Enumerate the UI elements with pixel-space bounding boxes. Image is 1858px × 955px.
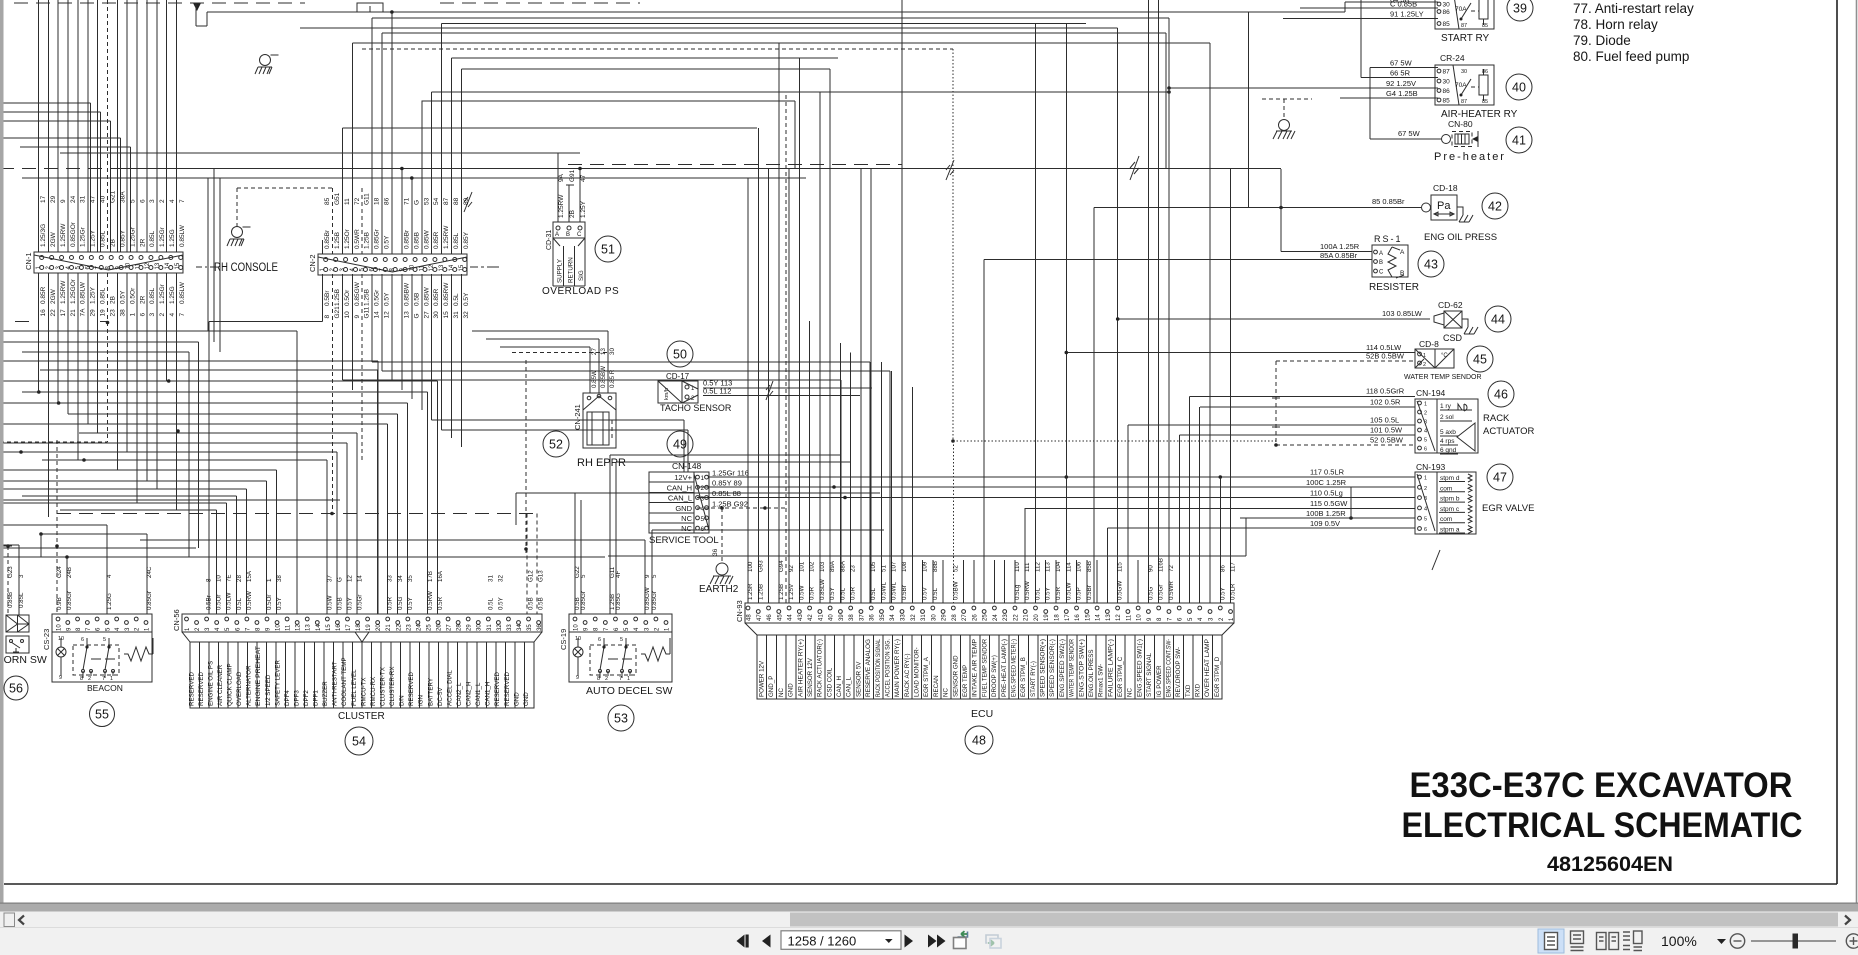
svg-text:1.25/3G: 1.25/3G — [40, 224, 47, 247]
wire — [1248, 12, 1250, 208]
wire — [208, 322, 210, 615]
svg-text:RS-1: RS-1 — [1374, 234, 1403, 244]
svg-text:55: 55 — [95, 708, 109, 722]
connector CN-148 SERVICE TOOL — [649, 461, 749, 546]
svg-text:23: 23 — [850, 565, 857, 572]
wire — [140, 539, 645, 541]
svg-text:0.5Y: 0.5Y — [384, 235, 391, 249]
relay CR-24 AIR-HEATER RY — [1435, 53, 1518, 120]
wire — [0, 544, 19, 546]
svg-text:103 0.85LW: 103 0.85LW — [1382, 309, 1423, 318]
svg-text:0.5Br: 0.5Br — [1086, 585, 1093, 600]
wire — [651, 530, 653, 614]
svg-text:56: 56 — [9, 682, 23, 696]
svg-text:5: 5 — [651, 574, 658, 578]
svg-text:0.5Y: 0.5Y — [1045, 587, 1052, 600]
svg-text:B: B — [1400, 270, 1404, 277]
wire — [107, 0, 109, 252]
svg-text:32: 32 — [497, 624, 503, 631]
toolbar background — [0, 927, 1858, 955]
svg-text:0.5Br: 0.5Br — [901, 585, 908, 600]
svg-text:CN-1: CN-1 — [24, 252, 33, 270]
svg-text:0.85RW: 0.85RW — [443, 282, 450, 306]
svg-text:stpm b: stpm b — [1440, 496, 1460, 503]
svg-text:DPF1: DPF1 — [313, 690, 320, 706]
svg-text:54: 54 — [352, 735, 366, 749]
svg-text:6: 6 — [701, 526, 705, 533]
svg-text:0.85W: 0.85W — [591, 370, 598, 388]
svg-text:0.85B: 0.85B — [7, 592, 14, 608]
svg-text:23: 23 — [110, 309, 117, 317]
svg-text:24C: 24C — [146, 566, 153, 578]
svg-text:13: 13 — [1106, 614, 1112, 621]
pressure sender CD-18 ENG OIL PRESS — [1372, 183, 1497, 243]
wire — [346, 443, 348, 614]
wire — [1118, 318, 1430, 320]
svg-text:START SIGNAL: START SIGNAL — [1146, 652, 1153, 697]
svg-text:19: 19 — [100, 309, 107, 317]
wire — [0, 545, 12, 547]
svg-text:53: 53 — [423, 197, 430, 205]
svg-text:4 rps: 4 rps — [1440, 438, 1455, 445]
svg-text:16: 16 — [336, 624, 342, 631]
svg-text:CAN_L: CAN_L — [668, 494, 692, 503]
zoom in button — [1846, 934, 1858, 948]
svg-text:47: 47 — [580, 174, 587, 182]
svg-text:1: 1 — [627, 676, 630, 682]
svg-text:0.5B: 0.5B — [538, 597, 545, 610]
svg-text:CAN_H: CAN_H — [667, 483, 692, 492]
svg-text:34: 34 — [517, 624, 523, 631]
button previous page — [762, 935, 771, 948]
svg-text:DROOP SW(+): DROOP SW(+) — [991, 655, 998, 697]
ground (RH console) — [227, 227, 251, 247]
svg-text:86: 86 — [1482, 69, 1488, 75]
svg-text:CD-31: CD-31 — [546, 230, 553, 250]
junction — [400, 167, 404, 171]
svg-text:22: 22 — [396, 624, 402, 631]
svg-text:100C 1.25R: 100C 1.25R — [1306, 478, 1347, 487]
callout 56 — [4, 676, 28, 700]
svg-text:71: 71 — [403, 197, 410, 205]
wire — [22, 495, 237, 497]
wire — [206, 12, 208, 26]
svg-text:102 0.5R: 102 0.5R — [1370, 398, 1401, 407]
svg-text:1.25Y: 1.25Y — [90, 286, 97, 304]
wire — [472, 330, 608, 332]
wire — [391, 274, 393, 380]
callout 53 — [608, 705, 634, 731]
svg-text:5: 5 — [701, 516, 705, 523]
svg-text:0.85Y: 0.85Y — [463, 231, 470, 249]
svg-text:NC: NC — [681, 514, 692, 523]
svg-text:43: 43 — [798, 614, 804, 621]
viewer left edge strip — [0, 0, 4, 927]
svg-text:47: 47 — [757, 614, 763, 621]
junction — [1279, 206, 1283, 210]
wire — [1086, 560, 1088, 603]
junction — [39, 532, 43, 536]
wire — [942, 560, 944, 603]
wire — [382, 32, 1166, 34]
svg-text:110 0.5Lg: 110 0.5Lg — [1310, 489, 1343, 498]
svg-text:52: 52 — [549, 438, 563, 452]
svg-text:CAN_H: CAN_H — [836, 676, 843, 697]
svg-text:com: com — [1440, 485, 1452, 492]
wire — [22, 177, 806, 179]
wire — [110, 121, 112, 252]
svg-text:32: 32 — [911, 614, 917, 621]
button last page — [928, 935, 946, 948]
wire — [768, 169, 770, 603]
wire — [67, 273, 69, 414]
wire — [451, 274, 453, 438]
wire — [579, 169, 581, 223]
wire — [1219, 477, 1221, 603]
svg-text:LOAD MONITOR-: LOAD MONITOR- — [914, 647, 921, 697]
svg-text:OVERLOAD: OVERLOAD — [236, 671, 243, 706]
svg-text:CLUSTER: CLUSTER — [338, 711, 385, 722]
svg-text:31: 31 — [453, 311, 460, 319]
svg-text:72: 72 — [1168, 565, 1175, 572]
connector CN-2 (RH console) — [308, 192, 470, 318]
wire — [1262, 98, 1312, 100]
wire — [1024, 508, 1026, 603]
wire — [1370, 138, 1442, 140]
wire — [1025, 508, 1415, 510]
wire — [156, 273, 158, 489]
wire — [386, 424, 388, 614]
svg-text:0.85L: 0.85L — [18, 592, 25, 608]
svg-text:1.25V: 1.25V — [788, 583, 795, 600]
svg-text:CAN2_H: CAN2_H — [466, 682, 473, 706]
wire — [246, 489, 248, 614]
svg-text:0.5Br: 0.5Br — [206, 595, 213, 610]
svg-text:11: 11 — [135, 263, 141, 270]
svg-text:HORN SW: HORN SW — [0, 654, 47, 666]
svg-text:SIG: SIG — [578, 270, 585, 281]
svg-text:0.85B: 0.85B — [413, 232, 420, 249]
callout 39 — [1507, 0, 1533, 21]
svg-text:6: 6 — [1424, 447, 1427, 453]
junction — [330, 512, 334, 516]
wire — [440, 2, 640, 4]
ECU pin wire labels — [747, 558, 1237, 600]
svg-text:2: 2 — [88, 676, 91, 682]
svg-text:0.5LW: 0.5LW — [226, 592, 233, 610]
junction — [6, 544, 10, 548]
svg-text:30: 30 — [477, 624, 483, 631]
svg-text:stpm c: stpm c — [1440, 506, 1460, 513]
wire — [0, 442, 347, 444]
svg-text:1.25B G92: 1.25B G92 — [712, 500, 748, 509]
wire — [932, 560, 934, 603]
wire — [1240, 517, 1415, 519]
wire — [331, 274, 333, 514]
svg-text:42: 42 — [808, 614, 814, 621]
svg-text:87: 87 — [1461, 99, 1467, 105]
svg-text:78. Horn relay: 78. Horn relay — [1573, 17, 1658, 32]
svg-text:G93: G93 — [757, 560, 764, 572]
wire — [56, 440, 58, 614]
wire — [441, 274, 443, 430]
svg-text:SPEED SENSOR(-): SPEED SENSOR(-) — [1049, 639, 1056, 697]
wire — [207, 11, 1345, 13]
svg-text:0.85LW: 0.85LW — [819, 579, 826, 600]
wire — [87, 273, 89, 424]
svg-text:1.25G: 1.25G — [169, 286, 176, 304]
svg-text:0.5WL: 0.5WL — [880, 582, 887, 600]
wire — [136, 273, 138, 503]
svg-text:0.85Gr: 0.85Gr — [580, 591, 587, 610]
svg-text:14: 14 — [357, 575, 364, 582]
solenoid CD-62 CSD — [1382, 300, 1478, 343]
wire — [557, 153, 559, 222]
svg-text:10: 10 — [344, 311, 351, 319]
wire — [0, 423, 387, 425]
svg-text:A: A — [555, 232, 559, 238]
wire — [1014, 560, 1016, 603]
svg-text:104: 104 — [1055, 561, 1062, 572]
wire — [747, 178, 749, 603]
svg-text:NC: NC — [778, 688, 785, 697]
svg-text:85: 85 — [1443, 21, 1451, 28]
wire — [984, 259, 1372, 261]
svg-text:9: 9 — [576, 675, 579, 681]
wire — [401, 274, 403, 390]
callout 43 — [1418, 251, 1444, 277]
wire — [952, 49, 954, 441]
svg-text:72: 72 — [354, 197, 361, 205]
wire — [136, 0, 138, 252]
wire — [371, 274, 373, 362]
break symbol — [1130, 156, 1139, 180]
svg-text:1.25B: 1.25B — [364, 289, 371, 306]
svg-text:111: 111 — [1024, 562, 1031, 572]
svg-text:0.5R: 0.5R — [809, 586, 816, 600]
wire — [1281, 251, 1372, 253]
pressure switch CD-31 OVERLOAD PS — [542, 169, 619, 297]
wire — [421, 101, 423, 254]
svg-text:109 0.5V: 109 0.5V — [1310, 519, 1340, 528]
svg-text:G24: G24 — [56, 566, 63, 578]
svg-text:33: 33 — [507, 624, 513, 631]
callout 46 — [1488, 381, 1514, 407]
svg-text:12: 12 — [384, 311, 391, 319]
wire — [953, 440, 1277, 442]
svg-text:0.5B: 0.5B — [528, 597, 535, 610]
wire — [1340, 97, 1438, 99]
wire — [1178, 435, 1180, 603]
svg-text:10: 10 — [58, 636, 64, 642]
svg-text:A: A — [1400, 249, 1405, 256]
svg-text:114: 114 — [1065, 562, 1072, 572]
svg-text:12: 12 — [145, 262, 151, 269]
wire — [391, 12, 393, 254]
svg-text:CD-17: CD-17 — [666, 372, 690, 381]
svg-text:1.25B: 1.25B — [778, 584, 785, 600]
svg-text:21: 21 — [386, 624, 392, 631]
wire — [22, 391, 428, 393]
svg-text:92 1.25V: 92 1.25V — [1386, 79, 1416, 88]
callout 49 — [667, 431, 693, 457]
svg-text:D/N: D/N — [399, 695, 406, 706]
button two pages — [1597, 933, 1619, 950]
svg-text:C: C — [1379, 270, 1384, 276]
svg-text:2B: 2B — [569, 210, 576, 218]
wire — [87, 0, 89, 252]
svg-text:24: 24 — [416, 624, 422, 631]
svg-text:1.25Gr: 1.25Gr — [159, 226, 166, 247]
svg-text:15: 15 — [443, 311, 450, 319]
svg-text:12V+: 12V+ — [674, 473, 692, 482]
svg-text:IG POWER: IG POWER — [1156, 665, 1163, 697]
svg-text:25: 25 — [426, 624, 432, 631]
svg-text:RACK AC RY(-): RACK AC RY(-) — [904, 653, 911, 697]
svg-text:39: 39 — [839, 614, 845, 621]
wire — [0, 488, 247, 490]
svg-text:105 0.5L: 105 0.5L — [1370, 416, 1399, 425]
svg-text:1: 1 — [129, 313, 136, 317]
svg-text:INTAKE AIR TEMP: INTAKE AIR TEMP — [972, 639, 979, 697]
svg-text:51: 51 — [880, 565, 887, 572]
wire — [20, 146, 131, 148]
svg-text:106: 106 — [1076, 561, 1083, 572]
svg-text:32: 32 — [497, 575, 504, 582]
svg-text:101: 101 — [798, 561, 805, 572]
junction — [176, 429, 180, 433]
wire — [1361, 77, 1438, 79]
svg-text:8: 8 — [324, 315, 331, 319]
wire — [79, 432, 357, 434]
wire — [0, 111, 101, 113]
svg-text:64 5R: 64 5R — [1390, 0, 1411, 4]
wire — [237, 187, 332, 189]
wire — [721, 508, 723, 564]
svg-text:RH EPPR: RH EPPR — [577, 457, 626, 469]
svg-text:0.5R: 0.5R — [437, 596, 444, 610]
junction — [578, 167, 582, 171]
svg-text:GND: GND — [788, 683, 795, 697]
svg-text:34: 34 — [890, 614, 896, 621]
svg-text:1.25B: 1.25B — [364, 232, 371, 249]
wire — [1065, 24, 1067, 604]
svg-text:PRE-HEAT LAMP(-): PRE-HEAT LAMP(-) — [1001, 639, 1008, 697]
ECU connector CN-93 — [735, 600, 1235, 699]
svg-text:CD-18: CD-18 — [1433, 183, 1458, 193]
wire — [213, 169, 215, 342]
svg-text:BEACON: BEACON — [87, 683, 123, 693]
wire — [697, 497, 1415, 499]
wire — [461, 69, 463, 254]
wire — [0, 441, 108, 443]
junction — [106, 321, 110, 325]
svg-text:88: 88 — [453, 197, 460, 205]
wire — [236, 188, 238, 226]
wire — [911, 387, 913, 603]
svg-text:0.85L: 0.85L — [100, 230, 107, 247]
svg-text:0.5Or: 0.5Or — [129, 287, 136, 304]
junction — [720, 506, 724, 510]
wire — [525, 360, 527, 556]
svg-text:0.9B: 0.9B — [56, 597, 63, 610]
svg-text:14: 14 — [316, 624, 322, 631]
svg-text:SENSOR 5V: SENSOR 5V — [855, 661, 862, 697]
junction — [1219, 475, 1223, 479]
svg-text:2: 2 — [701, 485, 705, 492]
svg-text:stpm d: stpm d — [1440, 475, 1460, 482]
svg-text:37: 37 — [859, 614, 865, 621]
break symbol — [946, 160, 954, 180]
svg-text:0.85L 88: 0.85L 88 — [712, 489, 741, 498]
svg-text:42: 42 — [1488, 200, 1502, 214]
svg-text:REV.DROOP SW-: REV.DROOP SW- — [1175, 647, 1182, 697]
svg-text:34: 34 — [397, 575, 404, 582]
wire — [1276, 360, 1415, 362]
wire — [1004, 560, 1006, 603]
svg-text:13: 13 — [155, 262, 161, 269]
callout 55 — [90, 702, 115, 727]
wire — [500, 346, 590, 348]
svg-text:4: 4 — [1424, 506, 1427, 512]
svg-text:41: 41 — [1512, 134, 1526, 148]
svg-text:30: 30 — [609, 348, 616, 355]
svg-text:0.85Gr: 0.85Gr — [374, 228, 381, 249]
wire — [351, 43, 353, 254]
svg-text:CD-8: CD-8 — [1419, 339, 1439, 349]
svg-text:ANTI-RESTART: ANTI-RESTART — [332, 661, 339, 706]
svg-text:79. Diode: 79. Diode — [1573, 33, 1631, 48]
zoom slider — [1751, 940, 1836, 942]
svg-text:1.25Gr: 1.25Gr — [159, 283, 166, 304]
svg-text:87: 87 — [443, 197, 450, 205]
svg-text:28: 28 — [457, 624, 463, 631]
svg-text:108: 108 — [901, 561, 908, 572]
wire — [1345, 1, 1438, 3]
svg-text:0.5V: 0.5V — [922, 586, 929, 600]
wire — [0, 451, 337, 453]
svg-text:5: 5 — [103, 637, 106, 643]
svg-text:0.5BW: 0.5BW — [952, 581, 959, 600]
svg-text:CN-194: CN-194 — [1416, 388, 1446, 398]
svg-text:G: G — [413, 313, 420, 318]
wire — [166, 0, 168, 252]
svg-text:117: 117 — [1230, 562, 1237, 572]
svg-text:C: C — [577, 232, 582, 238]
svg-text:START RY: START RY — [1441, 33, 1489, 44]
svg-text:6 gnd: 6 gnd — [1440, 447, 1457, 454]
wire — [0, 137, 121, 139]
svg-text:1.25RW: 1.25RW — [60, 280, 67, 304]
svg-text:0.5G: 0.5G — [1147, 586, 1154, 600]
CS-23 pin wire labels — [56, 566, 153, 610]
callout 40 — [1506, 74, 1532, 100]
wire — [100, 321, 108, 323]
svg-text:14: 14 — [1096, 614, 1102, 621]
svg-text:28: 28 — [952, 614, 958, 621]
svg-text:1/2 SPEED: 1/2 SPEED — [265, 674, 272, 706]
svg-text:°C: °C — [1441, 353, 1448, 359]
svg-text:10: 10 — [574, 624, 580, 631]
wire — [709, 476, 1415, 478]
svg-text:BUZZER: BUZZER — [322, 681, 329, 706]
svg-text:RESERVE ANALOG: RESERVE ANALOG — [865, 639, 872, 697]
svg-text:3: 3 — [149, 199, 156, 203]
svg-text:15: 15 — [1085, 614, 1091, 621]
svg-text:0.85R: 0.85R — [433, 231, 440, 249]
wire — [785, 95, 787, 603]
wire — [266, 481, 268, 614]
